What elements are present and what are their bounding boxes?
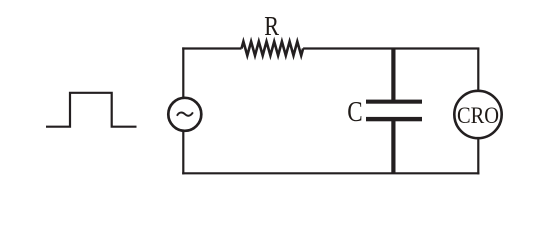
wire top-right segment <box>303 47 479 49</box>
oscilloscope CRO (circle) <box>454 91 501 138</box>
source V1 sine symbol <box>177 112 193 115</box>
resistor R <box>242 42 304 56</box>
wire CRO bottom lead <box>477 139 479 174</box>
source V1 (circle) <box>168 98 201 131</box>
wire capacitor bottom lead <box>391 120 395 173</box>
wire left vertical upper <box>182 47 184 97</box>
wire left vertical lower <box>182 132 184 175</box>
wire bottom segment <box>182 172 479 174</box>
wire top-left segment <box>182 47 241 49</box>
svg-text:C: C <box>347 97 362 128</box>
pulse input waveform <box>46 93 137 127</box>
svg-text:R: R <box>264 11 279 41</box>
wire CRO top lead <box>477 49 479 91</box>
svg-text:CRO: CRO <box>457 103 499 128</box>
wire capacitor top lead <box>391 49 395 101</box>
capacitor C bottom plate <box>366 117 422 121</box>
capacitor C top plate <box>366 100 422 104</box>
